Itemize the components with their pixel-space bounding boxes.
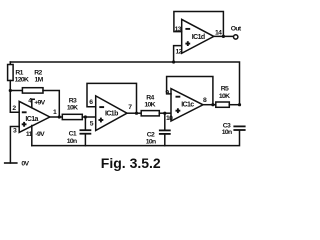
svg-text:1: 1 xyxy=(53,109,57,116)
node IC1a output junction xyxy=(58,115,61,118)
svg-text:13: 13 xyxy=(175,26,182,33)
svg-text:R2: R2 xyxy=(34,70,42,77)
node R1-R2 junction xyxy=(9,89,12,92)
ground 0V xyxy=(5,162,17,164)
svg-text:C1: C1 xyxy=(69,131,77,138)
svg-text:1M: 1M xyxy=(35,77,44,84)
wire IC1c feedback pin9 xyxy=(167,77,213,105)
wire C2 bottom stub xyxy=(164,135,166,146)
svg-text:0V: 0V xyxy=(21,161,29,168)
wire IC1b feedback pin6 xyxy=(87,83,137,113)
node IC1c fb junction xyxy=(211,103,214,106)
svg-text:C2: C2 xyxy=(147,131,155,138)
svg-text:-9V: -9V xyxy=(35,131,45,138)
svg-text:IC1a: IC1a xyxy=(25,116,38,123)
svg-text:10K: 10K xyxy=(144,102,155,109)
wire IC1b out to R4 xyxy=(127,112,141,114)
svg-text:120K: 120K xyxy=(15,77,29,84)
svg-text:3: 3 xyxy=(13,128,17,135)
wire R1 bottom to pin2 xyxy=(10,81,19,113)
wire C1 top stub xyxy=(84,117,86,129)
plus IC1d xyxy=(185,43,190,45)
svg-text:10n: 10n xyxy=(222,129,232,136)
svg-text:Out: Out xyxy=(231,26,242,33)
op-amp input polarity marks xyxy=(22,29,191,127)
minus IC1b xyxy=(99,106,104,108)
wire C1 bottom stub xyxy=(84,135,86,146)
op-amp IC1d xyxy=(182,19,214,53)
svg-text:IC1d: IC1d xyxy=(192,34,205,41)
wire R2 left xyxy=(10,90,22,92)
wire top feedback rail xyxy=(10,62,239,105)
wire IC1a out to R3 xyxy=(50,116,63,118)
plus IC1a xyxy=(22,123,27,125)
svg-text:10: 10 xyxy=(166,115,173,122)
resistor R2 xyxy=(22,88,43,93)
svg-text:Fig. 3.5.2: Fig. 3.5.2 xyxy=(101,155,161,171)
wire IC1c out to R5 xyxy=(203,104,216,106)
minus IC1a xyxy=(22,111,27,113)
resistor R4 xyxy=(141,111,159,116)
wire pin11 to bottom rail xyxy=(31,126,33,146)
wire IC1d out xyxy=(214,35,234,37)
op-amp IC1a xyxy=(19,101,50,132)
node IC1b fb junction xyxy=(135,112,138,115)
svg-text:10n: 10n xyxy=(146,139,156,146)
resistor R1 xyxy=(8,65,14,81)
wire R3 to IC1b pin5 xyxy=(82,116,95,118)
wire pin4 +9V xyxy=(32,99,34,107)
svg-text:+9V: +9V xyxy=(34,100,45,107)
svg-text:11: 11 xyxy=(26,131,33,138)
svg-text:12: 12 xyxy=(176,48,183,55)
svg-text:R4: R4 xyxy=(146,94,154,101)
node IC1d fb junction xyxy=(222,35,225,38)
svg-text:9: 9 xyxy=(165,90,169,97)
capacitor C1 xyxy=(80,129,90,131)
node top rail pin12 tap xyxy=(172,60,175,63)
svg-text:2: 2 xyxy=(12,105,16,112)
svg-text:IC1c: IC1c xyxy=(181,102,194,109)
wire C2 top stub xyxy=(164,113,166,129)
wire R5 to right rail xyxy=(229,104,239,106)
op-amp IC1b xyxy=(96,96,127,131)
resistor R3 xyxy=(62,114,82,119)
node C2 junction xyxy=(163,112,166,115)
wire IC1d pin12 xyxy=(174,46,182,62)
capacitor C3 xyxy=(234,125,244,127)
minus IC1c xyxy=(176,96,181,98)
svg-text:IC1b: IC1b xyxy=(105,111,118,118)
svg-text:R1: R1 xyxy=(15,70,23,77)
node R5-C3 junction xyxy=(238,103,241,106)
svg-text:R5: R5 xyxy=(221,86,229,93)
resistor R5 xyxy=(216,102,230,107)
wire R4 to IC1c pin10 xyxy=(159,112,171,114)
svg-text:14: 14 xyxy=(215,29,222,36)
svg-text:6: 6 xyxy=(89,99,93,106)
svg-text:5: 5 xyxy=(90,120,94,127)
plus IC1c xyxy=(176,110,181,112)
op-amp IC1c xyxy=(171,89,203,121)
wire R2 right to output node xyxy=(43,91,59,118)
plus IC1b xyxy=(99,119,104,121)
wire bottom rail xyxy=(32,131,240,146)
svg-text:8: 8 xyxy=(203,97,207,104)
wire IC1a pin3 to ground xyxy=(10,127,19,164)
svg-text:10K: 10K xyxy=(219,93,230,100)
svg-text:7: 7 xyxy=(128,104,132,111)
wire IC1d feedback pin13 xyxy=(174,12,224,37)
terminal Out xyxy=(234,35,238,39)
svg-text:10K: 10K xyxy=(67,104,78,111)
node C1 junction xyxy=(84,115,87,118)
capacitor C2 xyxy=(160,129,170,131)
minus IC1d xyxy=(185,28,190,30)
wire R1 top stub xyxy=(9,62,11,65)
svg-text:10n: 10n xyxy=(67,138,77,145)
